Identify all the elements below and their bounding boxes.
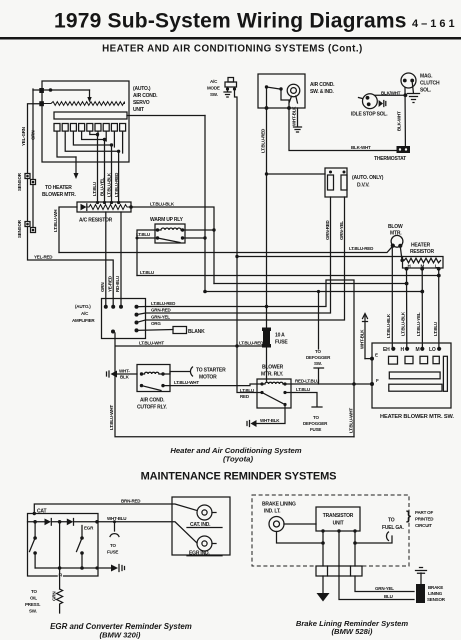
dashed boundary printed circuit bbox=[252, 495, 409, 566]
wire LT.BLU-BLK resistor to warm up rly net bbox=[131, 207, 214, 284]
label LT.BLU RED stacked bbox=[240, 388, 254, 399]
svg-text:E: E bbox=[375, 353, 378, 358]
svg-text:H: H bbox=[401, 347, 405, 353]
label air cond cutoff rly bbox=[137, 398, 168, 411]
line LT.BLU to L bbox=[137, 275, 439, 277]
indicator box bbox=[172, 497, 230, 555]
wire lamp down to pin 1 bbox=[277, 532, 324, 544]
wire warm up rly left LT.BLU bbox=[137, 230, 158, 276]
wire mag clutch down to thermostat bbox=[404, 88, 406, 147]
svg-text:LT.BLU-BLK: LT.BLU-BLK bbox=[401, 311, 406, 336]
air cond sw and ind label bbox=[310, 82, 335, 95]
cutoff rly ground WHT-BLK bbox=[111, 371, 118, 378]
a/c mode sw label bbox=[207, 79, 220, 97]
label to fuel ga bbox=[382, 518, 404, 532]
svg-text:A/C RESISTOR: A/C RESISTOR bbox=[79, 218, 113, 224]
amplifier label bbox=[72, 304, 95, 323]
svg-text:TO HEATER: TO HEATER bbox=[45, 185, 72, 191]
switch inside bbox=[265, 85, 268, 88]
svg-text:FUSE: FUSE bbox=[107, 550, 118, 555]
wire into servo top bbox=[33, 89, 90, 91]
svg-text:GRN: GRN bbox=[52, 592, 57, 601]
svg-text:RESISTOR: RESISTOR bbox=[410, 249, 434, 255]
svg-text:LT.BLU-WH: LT.BLU-WH bbox=[53, 210, 58, 232]
svg-text:DEFOGGER: DEFOGGER bbox=[306, 355, 331, 360]
label WHT-BLK bbox=[119, 369, 130, 380]
svg-text:10 A: 10 A bbox=[275, 333, 285, 339]
svg-text:BLK/WHT: BLK/WHT bbox=[381, 91, 401, 96]
heater resistor label bbox=[410, 242, 434, 255]
label brake lining ind lt bbox=[262, 502, 296, 515]
branch to defogger sw bbox=[318, 292, 320, 350]
wire blow mtr to heater resistor bbox=[400, 247, 402, 261]
ground from pin 1 bbox=[322, 576, 324, 593]
svg-text:(AUTO.): (AUTO.) bbox=[133, 86, 151, 92]
to heater blower mtr label bbox=[42, 185, 76, 198]
svg-text:RD-BLU: RD-BLU bbox=[115, 276, 120, 292]
svg-text:IDLE STOP SOL.: IDLE STOP SOL. bbox=[351, 112, 388, 118]
svg-text:BLK: BLK bbox=[120, 375, 130, 380]
svg-text:TO: TO bbox=[315, 349, 321, 354]
heater resistor box bbox=[403, 257, 444, 269]
svg-text:DEFOGGER: DEFOGGER bbox=[303, 421, 328, 426]
svg-text:OIL: OIL bbox=[30, 596, 37, 601]
wire BRN-RED bbox=[34, 504, 197, 514]
svg-text:UNIT: UNIT bbox=[133, 107, 144, 113]
a/c mode sw ground bbox=[224, 89, 231, 97]
to fuse tap bbox=[114, 522, 116, 531]
svg-text:EH: EH bbox=[383, 347, 390, 353]
svg-text:}: } bbox=[406, 508, 411, 523]
wire air sw left pin down bbox=[266, 87, 268, 346]
svg-text:(AUTO.): (AUTO.) bbox=[75, 304, 91, 309]
amplifier top pin dots bbox=[104, 305, 108, 309]
svg-text:LT.BLU-YEL: LT.BLU-YEL bbox=[416, 312, 421, 336]
diode bus bbox=[28, 521, 99, 523]
label to fuse bbox=[107, 543, 118, 555]
svg-text:GRN-YEL: GRN-YEL bbox=[151, 315, 170, 320]
svg-text:HEATER AND AIR CONDITIONING SY: HEATER AND AIR CONDITIONING SYSTEMS (Con… bbox=[102, 44, 363, 55]
blower mtr rly label bbox=[261, 365, 284, 378]
brake lining sensor terminal bbox=[416, 568, 427, 585]
to heater blower mtr stub bbox=[75, 157, 77, 173]
a/c resistor box bbox=[77, 202, 131, 212]
svg-text:BLOWER MTR.: BLOWER MTR. bbox=[42, 192, 76, 198]
svg-text:WHT-BLK: WHT-BLK bbox=[360, 329, 365, 349]
svg-text:LT.BLU: LT.BLU bbox=[140, 270, 154, 275]
air sw ground WHT-BLK bbox=[294, 108, 302, 132]
switch 1 bbox=[30, 522, 36, 568]
svg-text:LT.BLU-WHT: LT.BLU-WHT bbox=[139, 341, 164, 346]
wire warm up rly right to node 214 bbox=[183, 229, 215, 231]
ground arrow bbox=[111, 565, 118, 572]
svg-text:LT.BLU-RED: LT.BLU-RED bbox=[114, 172, 119, 197]
svg-text:HEATER: HEATER bbox=[411, 242, 431, 248]
svg-text:LT.BLU-RED: LT.BLU-RED bbox=[349, 246, 374, 251]
wire cutoff rly to blower rly LT.BLU-WHT bbox=[163, 384, 262, 386]
svg-text:(Toyota): (Toyota) bbox=[223, 455, 253, 464]
svg-text:BLK-WHT: BLK-WHT bbox=[351, 145, 371, 150]
switch slider bars bbox=[389, 372, 440, 379]
svg-text:MAINTENANCE REMINDER SYSTEMS: MAINTENANCE REMINDER SYSTEMS bbox=[141, 471, 337, 483]
10A fuse bbox=[266, 346, 268, 381]
svg-text:LT.BLU-BLK: LT.BLU-BLK bbox=[150, 202, 175, 207]
svg-text:LO: LO bbox=[429, 347, 436, 353]
svg-text:LT.BLU: LT.BLU bbox=[136, 232, 150, 237]
svg-text:IND. LT.: IND. LT. bbox=[264, 509, 281, 515]
E pin bbox=[370, 357, 374, 361]
svg-text:BLOW: BLOW bbox=[388, 224, 403, 230]
svg-text:WHT-BLK: WHT-BLK bbox=[260, 418, 280, 423]
wire BLU bbox=[339, 576, 414, 600]
svg-text:TO: TO bbox=[313, 415, 319, 420]
svg-text:LT.BLU: LT.BLU bbox=[433, 322, 438, 336]
switch 2 bbox=[77, 526, 83, 569]
svg-text:LT.BLU-WHT: LT.BLU-WHT bbox=[109, 405, 114, 430]
fuel gauge connector bbox=[355, 532, 392, 543]
diode 2 bbox=[67, 519, 74, 526]
svg-text:Heater and Air Conditioning Sy: Heater and Air Conditioning System bbox=[170, 446, 301, 455]
svg-text:(AUTO. ONLY): (AUTO. ONLY) bbox=[352, 175, 384, 181]
svg-text:BRAKE: BRAKE bbox=[428, 585, 443, 590]
bottom bus bbox=[35, 567, 110, 569]
svg-text:WHT-BLK: WHT-BLK bbox=[292, 106, 297, 126]
svg-text:TO: TO bbox=[110, 543, 116, 548]
svg-text:SERVO: SERVO bbox=[133, 100, 150, 106]
svg-text:FUSE: FUSE bbox=[310, 427, 321, 432]
wire servo bar to node M line bbox=[127, 115, 205, 117]
svg-text:M: M bbox=[416, 347, 420, 353]
warm up rly box bbox=[155, 224, 185, 243]
wire EH bbox=[391, 247, 393, 349]
servo unit label bbox=[133, 86, 158, 113]
svg-text:FUEL GA.: FUEL GA. bbox=[382, 525, 404, 531]
servo potentiometer zigzag bbox=[44, 102, 125, 106]
svg-text:AIR COND.: AIR COND. bbox=[310, 82, 335, 88]
mag clutch ground bbox=[408, 82, 420, 103]
switch contact squares bbox=[389, 356, 398, 364]
brake lining indicator lamp bbox=[269, 517, 284, 532]
air cond cutoff rly box bbox=[137, 365, 170, 392]
dvv label bbox=[352, 175, 384, 189]
wire a/c mode sw down bbox=[235, 89, 238, 346]
svg-text:GRN-YEL: GRN-YEL bbox=[339, 221, 344, 240]
defogger sw connector bbox=[314, 368, 324, 384]
svg-text:YE-RED: YE-RED bbox=[108, 275, 113, 292]
a/c mode switch bbox=[228, 78, 234, 83]
printed circuit connector strip bbox=[316, 566, 362, 576]
svg-text:LT.BLU-WHT: LT.BLU-WHT bbox=[174, 380, 199, 385]
wire coil to F line RED-LT.BLU bbox=[285, 383, 372, 385]
blow mtr label bbox=[388, 224, 403, 237]
amplifier output GRN-YEL bbox=[146, 197, 345, 320]
svg-text:PRESS.: PRESS. bbox=[25, 602, 40, 607]
svg-text:SW. & IND.: SW. & IND. bbox=[310, 89, 334, 95]
svg-text:HEATER BLOWER MTR. SW.: HEATER BLOWER MTR. SW. bbox=[380, 414, 454, 420]
wires resistor to switch bbox=[407, 269, 439, 349]
svg-text:LT.BLU-BLK: LT.BLU-BLK bbox=[386, 313, 391, 338]
idle stop sol connector bbox=[379, 100, 383, 107]
svg-text:SOL.: SOL. bbox=[420, 88, 432, 94]
wire to defogger fuse bbox=[285, 393, 322, 408]
svg-text:MOTOR: MOTOR bbox=[199, 375, 217, 381]
label to starter motor bbox=[196, 368, 226, 381]
blower rly switch bbox=[262, 393, 283, 404]
svg-text:LT.BLU: LT.BLU bbox=[92, 182, 97, 196]
brake lining sensor body bbox=[416, 584, 425, 603]
svg-text:LT.BLU-BLK: LT.BLU-BLK bbox=[107, 172, 112, 197]
wire to starter motor bbox=[163, 372, 190, 375]
svg-text:SENSOR: SENSOR bbox=[17, 219, 22, 238]
wht-blk arrow connector bbox=[363, 314, 368, 359]
switch top pin dots bbox=[391, 347, 395, 351]
svg-text:GRN-RED: GRN-RED bbox=[325, 219, 330, 240]
servo connector squares bbox=[54, 124, 126, 132]
wire GRN-YEL bbox=[355, 576, 414, 592]
svg-text:PART OF: PART OF bbox=[415, 510, 433, 515]
amplifier output GRN-RED bbox=[146, 197, 331, 313]
svg-text:MAG.: MAG. bbox=[420, 74, 433, 80]
svg-text:EGR: EGR bbox=[84, 526, 94, 531]
svg-text:YEL-GRN: YEL-GRN bbox=[21, 127, 26, 146]
svg-text:CAT: CAT bbox=[37, 509, 46, 515]
indicator lamp bbox=[287, 84, 300, 97]
svg-text:LT.BLU-RED: LT.BLU-RED bbox=[239, 341, 264, 346]
air cond sw and ind box bbox=[258, 74, 305, 108]
svg-text:TO: TO bbox=[31, 589, 37, 594]
svg-text:LT.BLU-WHT: LT.BLU-WHT bbox=[349, 408, 354, 433]
egr ind lamp bbox=[197, 536, 212, 551]
cutoff rly coil bbox=[142, 372, 164, 374]
svg-text:CUTOFF RLY.: CUTOFF RLY. bbox=[137, 405, 168, 411]
wire lamp to pins bbox=[281, 89, 298, 108]
mag clutch label bbox=[420, 74, 440, 94]
svg-text:SW.: SW. bbox=[314, 361, 322, 366]
wire idle stop to mag clutch BLK/WHT bbox=[375, 94, 406, 96]
wire air sw to dvv bbox=[267, 173, 326, 175]
svg-text:BLU-YEL: BLU-YEL bbox=[100, 177, 105, 196]
idle stop sol bbox=[363, 94, 378, 109]
svg-text:SW.: SW. bbox=[29, 609, 37, 614]
wire warm up rly right to node 205 bbox=[183, 237, 206, 239]
wire FI down to coil bbox=[59, 522, 61, 589]
svg-text:D.V.V.: D.V.V. bbox=[357, 183, 370, 189]
node wire x205 servo bar down bbox=[204, 116, 206, 292]
wire air sw right pin to thermostat BLK-WHT bbox=[289, 108, 396, 151]
line A LT.BLU-RED long bbox=[59, 247, 392, 253]
label to defogger sw bbox=[306, 349, 331, 366]
svg-text:BLOWER: BLOWER bbox=[262, 365, 284, 371]
wire a/c resistor left to LT.BLU-WH bbox=[59, 207, 77, 253]
wire amplifier bottom LT.BLU-WHT bbox=[115, 333, 354, 437]
transistor pins bbox=[321, 529, 324, 532]
switch right bar bbox=[443, 356, 447, 391]
blow mtr bbox=[391, 235, 403, 247]
label 10A fuse bbox=[275, 333, 288, 346]
wire GRN left bbox=[32, 89, 34, 179]
amplifier right pin dots bbox=[135, 305, 139, 309]
servo bar bbox=[54, 112, 127, 119]
svg-text:LT.BLU-RED: LT.BLU-RED bbox=[151, 301, 176, 306]
line M feed bbox=[205, 291, 422, 293]
svg-text:TO: TO bbox=[388, 518, 395, 524]
transistor unit box bbox=[316, 507, 360, 531]
svg-text:RED-LT.BLU: RED-LT.BLU bbox=[295, 379, 319, 384]
svg-text:LT.BLU: LT.BLU bbox=[240, 388, 254, 393]
svg-text:FUSE: FUSE bbox=[275, 340, 288, 346]
F pin bbox=[370, 382, 374, 386]
diode 1 bbox=[45, 519, 52, 526]
junction dot bbox=[49, 88, 53, 92]
cutoff rly switch bbox=[142, 386, 162, 391]
wires between sensors bbox=[28, 179, 34, 228]
blower mtr rly box bbox=[257, 379, 291, 408]
wire WHT-BLU bbox=[98, 522, 197, 543]
heater blower mtr sw box bbox=[372, 343, 451, 408]
svg-text:AMPLIFIER: AMPLIFIER bbox=[72, 318, 95, 323]
svg-text:A/C: A/C bbox=[210, 79, 218, 84]
label brake lining sensor bbox=[427, 585, 446, 602]
a/c resistor diode bbox=[81, 204, 87, 211]
a/c resistor zigzag bbox=[87, 205, 131, 210]
dvv box bbox=[325, 168, 347, 197]
svg-text:TO STARTER: TO STARTER bbox=[196, 368, 226, 374]
svg-text:AIR COND.: AIR COND. bbox=[133, 93, 158, 99]
svg-text:GRN-YEL: GRN-YEL bbox=[375, 586, 394, 591]
header rule bbox=[0, 37, 461, 40]
svg-text:LT.BLU: LT.BLU bbox=[296, 387, 310, 392]
amplifier bottom pin bbox=[111, 330, 115, 334]
svg-text:BLK-WHT: BLK-WHT bbox=[397, 111, 402, 131]
svg-text:SENSOR: SENSOR bbox=[427, 597, 446, 602]
blower rly coil bbox=[262, 382, 285, 384]
svg-text:LINING: LINING bbox=[428, 591, 443, 596]
svg-text:WHT-: WHT- bbox=[119, 369, 130, 374]
svg-text:GRN: GRN bbox=[31, 131, 36, 140]
svg-text:THERMOSTAT: THERMOSTAT bbox=[374, 156, 406, 162]
wiper arrow bbox=[89, 90, 91, 99]
mag clutch sol bbox=[401, 73, 416, 88]
svg-text:SW.: SW. bbox=[210, 92, 218, 97]
wires a/c resistor to amplifier bbox=[106, 212, 121, 305]
svg-text:A/C: A/C bbox=[81, 311, 89, 316]
warm up rly coil bbox=[157, 228, 183, 230]
svg-text:ORG: ORG bbox=[151, 321, 161, 326]
wire lamp to transistor bbox=[284, 523, 316, 525]
wire mode net down to blower rly coil bbox=[237, 346, 262, 393]
heater resistor zigzag bbox=[404, 258, 441, 263]
svg-text:GRN-RED: GRN-RED bbox=[151, 308, 172, 313]
a/c amplifier box bbox=[102, 299, 146, 339]
svg-text:MTR. RLY.: MTR. RLY. bbox=[261, 372, 284, 378]
svg-text:(BMW 320i): (BMW 320i) bbox=[100, 631, 141, 640]
wire YEL-GRN left bbox=[28, 104, 43, 173]
svg-text:TRANSISTOR: TRANSISTOR bbox=[323, 513, 354, 519]
svg-text:4–161: 4–161 bbox=[412, 18, 458, 30]
svg-text:AIR COND.: AIR COND. bbox=[140, 398, 165, 404]
svg-text:GRN: GRN bbox=[100, 283, 105, 292]
svg-text:MODE: MODE bbox=[207, 86, 220, 91]
svg-text:WARM UP RLY: WARM UP RLY bbox=[150, 217, 184, 223]
label to oil press sw bbox=[25, 589, 40, 614]
egr control box bbox=[28, 514, 99, 577]
svg-text:UNIT: UNIT bbox=[333, 521, 344, 527]
blank plug bbox=[173, 327, 187, 334]
svg-text:RED: RED bbox=[240, 394, 250, 399]
sensor 1 connector bbox=[25, 174, 30, 179]
blower rly bottom to ground WHT-BLK bbox=[257, 405, 285, 424]
svg-text:CIRCUIT: CIRCUIT bbox=[415, 523, 432, 528]
svg-text:1979 Sub-System Wiring Diagr: 1979 Sub-System Wiring Diagrams bbox=[54, 10, 407, 33]
svg-text:BRN-RED: BRN-RED bbox=[121, 499, 141, 504]
svg-text:BLU: BLU bbox=[384, 594, 393, 599]
line B to heater resistor bbox=[237, 256, 403, 258]
svg-text:BRAKE LINING: BRAKE LINING bbox=[262, 502, 296, 508]
label to defogger fuse bbox=[303, 415, 328, 432]
dvv internal coils bbox=[328, 175, 334, 190]
svg-text:YEL-RED: YEL-RED bbox=[34, 255, 53, 260]
servo unit box bbox=[42, 81, 129, 162]
thermostat bbox=[397, 146, 411, 153]
a/c resistor top pin dots bbox=[96, 201, 99, 204]
four wires servo to a/c resistor bbox=[98, 135, 119, 203]
sensor 2 connector bbox=[25, 222, 30, 227]
svg-text:CLUTCH: CLUTCH bbox=[420, 81, 440, 87]
svg-text:WHT-BLU: WHT-BLU bbox=[107, 516, 126, 521]
junction dot bbox=[39, 88, 44, 93]
junction dots on comb bbox=[96, 133, 99, 136]
svg-text:SENSOR: SENSOR bbox=[17, 172, 22, 191]
svg-text:LT.BLU-RED: LT.BLU-RED bbox=[261, 128, 266, 153]
svg-text:PRINTED: PRINTED bbox=[415, 517, 434, 522]
amplifier output ORG to blank bbox=[137, 329, 174, 332]
svg-text:(BMW 528i): (BMW 528i) bbox=[332, 627, 373, 636]
coil resistor vertical bbox=[57, 589, 63, 613]
line LT.BLU-BLK to H bbox=[214, 283, 407, 285]
cat ind lamp bbox=[197, 505, 212, 520]
svg-text:BLANK: BLANK bbox=[188, 329, 205, 335]
servo internal wiring comb bbox=[57, 131, 123, 157]
wire YEL-RED to amplifier bbox=[28, 227, 114, 306]
warm up rly switch bbox=[158, 238, 181, 243]
amplifier output LT.BLU-RED bbox=[146, 280, 355, 437]
svg-text:F: F bbox=[376, 378, 379, 383]
